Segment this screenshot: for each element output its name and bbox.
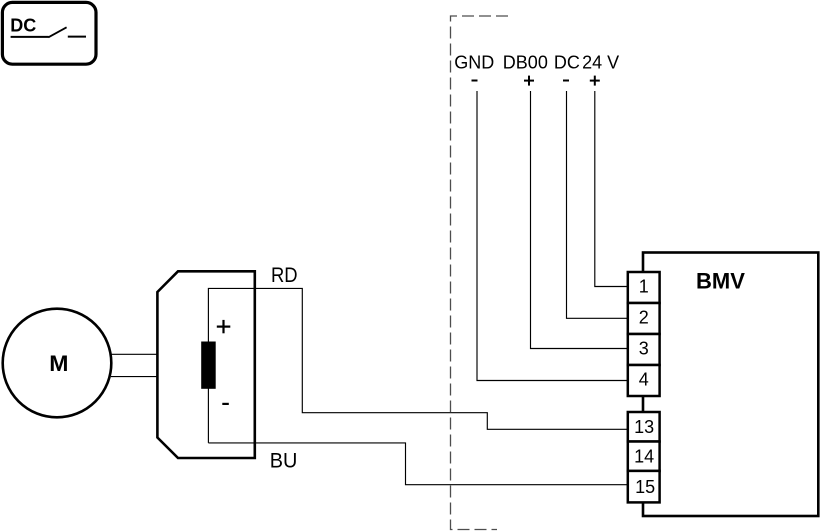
minus sign GND [472, 80, 478, 82]
switch contact left lead [11, 36, 49, 38]
svg-text:M: M [49, 351, 68, 376]
wire DC minus to terminal 2 [567, 91, 629, 318]
wire BU: feedback element - to terminal 15 [208, 443, 628, 485]
plus sign at element [217, 320, 231, 333]
svg-text:RD: RD [271, 264, 298, 287]
wire 24 V plus to terminal 1 [595, 91, 628, 287]
minus sign DC [563, 80, 569, 82]
svg-text:BMV: BMV [696, 268, 745, 293]
terminal 3 [628, 334, 660, 365]
terminal 1 [628, 272, 660, 303]
wire DB00 to terminal 3 [531, 91, 629, 349]
plus sign DB00 [524, 76, 534, 86]
terminal 2 [628, 303, 660, 334]
feedback element (potentiometer bar) [201, 342, 216, 389]
svg-text:15: 15 [635, 477, 655, 497]
terminal 13 [628, 412, 660, 442]
terminal 15 [628, 471, 660, 503]
svg-text:3: 3 [639, 338, 649, 358]
svg-text:1: 1 [639, 276, 649, 296]
terminal 4 [628, 365, 660, 396]
plus sign 24 V [590, 76, 600, 86]
svg-text:DC: DC [10, 15, 36, 35]
svg-text:14: 14 [634, 447, 654, 467]
wire GND to terminal 4 [477, 91, 628, 381]
terminal 14 [628, 442, 660, 472]
svg-text:2: 2 [639, 307, 649, 327]
motor M [3, 309, 112, 418]
motor shaft [111, 354, 158, 376]
switch lever [48, 27, 66, 37]
DC switch box S1 [2, 2, 96, 64]
wire RD: feedback element + to terminal 13 [208, 288, 628, 443]
svg-text:DC: DC [554, 52, 580, 72]
BMV controller box U1 [643, 253, 818, 517]
svg-text:13: 13 [634, 417, 654, 437]
svg-text:BU: BU [270, 449, 298, 472]
svg-text:4: 4 [639, 369, 649, 389]
minus sign at element [222, 403, 229, 405]
svg-text:DB00: DB00 [503, 52, 548, 72]
dashed panel boundary [451, 16, 509, 530]
actuator housing [157, 271, 254, 458]
svg-text:GND: GND [454, 52, 494, 72]
switch contact right lead [68, 36, 86, 38]
svg-text:24 V: 24 V [582, 52, 619, 72]
